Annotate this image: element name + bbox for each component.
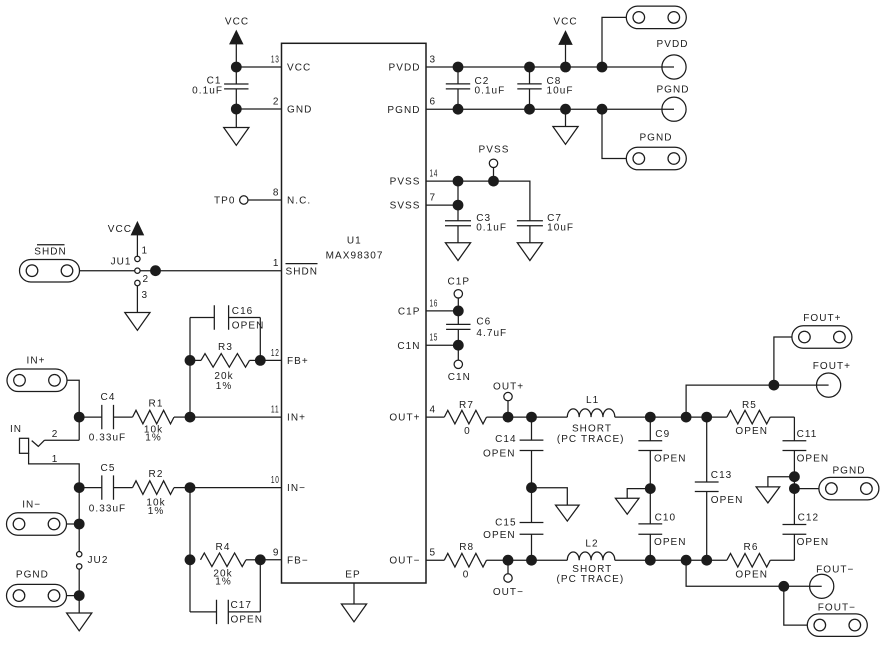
svg-text:4: 4 xyxy=(430,405,437,416)
svg-text:7: 7 xyxy=(430,193,437,204)
node C9 top xyxy=(645,412,656,423)
wire pin 2 GND xyxy=(236,108,281,110)
svg-text:OUT+: OUT+ xyxy=(389,413,420,424)
capacitor C17 OPEN xyxy=(190,600,263,626)
svg-text:C9: C9 xyxy=(655,429,670,440)
node C2 top xyxy=(453,62,464,73)
svg-text:GND: GND xyxy=(287,105,312,116)
svg-text:10uF: 10uF xyxy=(547,223,574,234)
capacitor C1 0.1uF xyxy=(192,67,248,109)
pad FOUT+ circle connector xyxy=(813,361,851,397)
svg-text:2: 2 xyxy=(52,429,59,440)
node OUT+ TP junction xyxy=(503,412,514,423)
svg-text:3: 3 xyxy=(430,55,437,66)
node C2 bottom xyxy=(453,104,464,115)
svg-text:C13: C13 xyxy=(711,470,733,481)
svg-text:(PC TRACE): (PC TRACE) xyxy=(557,574,625,585)
ground below C7 xyxy=(517,226,542,261)
wire pin 14 PVSS row xyxy=(426,181,530,221)
svg-text:5: 5 xyxy=(430,548,437,559)
pad PGND oval connector (right) xyxy=(819,466,879,500)
svg-text:C1P: C1P xyxy=(447,277,470,288)
svg-text:16: 16 xyxy=(430,298,439,309)
node ground right xyxy=(560,104,571,115)
svg-text:OPEN: OPEN xyxy=(483,530,516,541)
svg-text:MAX98307: MAX98307 xyxy=(326,250,384,261)
svg-text:FB+: FB+ xyxy=(287,356,309,367)
svg-text:VCC: VCC xyxy=(553,17,577,28)
node R4 left xyxy=(185,554,196,565)
capacitor C8 10uF xyxy=(517,67,573,109)
svg-text:N.C.: N.C. xyxy=(287,196,311,207)
node FOUT+ junction xyxy=(769,380,780,391)
svg-text:(PC TRACE): (PC TRACE) xyxy=(557,434,625,445)
node C13 top xyxy=(701,412,712,423)
wire R2 node down to R4/C17 xyxy=(189,488,191,612)
wire pin 15 C1N xyxy=(426,344,458,346)
node R3 left xyxy=(185,355,196,366)
resistor R4 20k 1% xyxy=(201,542,261,588)
svg-text:IN: IN xyxy=(10,424,22,435)
svg-text:SHDN: SHDN xyxy=(34,246,67,257)
svg-text:0.33uF: 0.33uF xyxy=(89,433,126,444)
ground below PGND row xyxy=(553,109,578,144)
svg-text:VCC: VCC xyxy=(287,63,311,74)
svg-text:C11: C11 xyxy=(797,429,818,440)
svg-text:1: 1 xyxy=(273,258,280,269)
capacitor C5 0.33uF xyxy=(79,463,132,515)
node FB+ junction xyxy=(255,355,266,366)
jumper JU1 xyxy=(111,246,150,302)
svg-text:C14: C14 xyxy=(495,434,517,445)
node IN+ pin 11 junction xyxy=(185,412,196,423)
svg-text:0.1uF: 0.1uF xyxy=(475,86,506,97)
wire FOUT- branch xyxy=(686,560,810,586)
wire PGND oval to PGND row xyxy=(602,109,626,158)
wire FOUT- oval branch xyxy=(784,586,808,625)
node C9/C10 ground junction xyxy=(645,483,656,494)
node C14/C15 ground junction xyxy=(526,482,537,493)
wire C16 right leg down to FB+ node xyxy=(259,318,261,361)
svg-text:PVDD: PVDD xyxy=(389,63,421,74)
svg-text:0.1uF: 0.1uF xyxy=(192,86,223,97)
svg-text:4.7uF: 4.7uF xyxy=(476,328,507,339)
wire pin 13 VCC xyxy=(236,66,281,68)
svg-text:R1: R1 xyxy=(149,399,164,410)
svg-text:1%: 1% xyxy=(145,433,162,444)
svg-text:OPEN: OPEN xyxy=(654,453,687,464)
wire FOUT+ oval branch xyxy=(774,337,792,385)
wire IN+ pad down to C4 node xyxy=(67,380,79,440)
pad PGND oval connector (right top) xyxy=(626,132,686,169)
pad SHDN oval connector xyxy=(20,245,80,282)
ground tap C14/C15 xyxy=(532,488,580,521)
wire PGND pad to ground xyxy=(67,595,80,597)
svg-text:FOUT+: FOUT+ xyxy=(813,361,851,372)
svg-text:C1N: C1N xyxy=(448,372,471,383)
capacitor C14 OPEN xyxy=(483,417,543,459)
node FOUT+ branch xyxy=(681,412,692,423)
wire C1P stem xyxy=(457,298,459,311)
ground below C1 xyxy=(224,109,249,145)
wire jack tip 2 to IN+ node xyxy=(45,439,80,441)
svg-text:1%: 1% xyxy=(148,506,165,517)
wire jack sleeve 1 to IN- node xyxy=(29,453,80,487)
svg-text:2: 2 xyxy=(273,97,280,108)
svg-text:1%: 1% xyxy=(215,576,232,587)
svg-text:R7: R7 xyxy=(459,400,474,411)
wire pin 6 PGND to PGND pad xyxy=(426,108,674,110)
svg-text:C1P: C1P xyxy=(398,307,421,318)
wire C11 to C12 xyxy=(793,451,795,525)
pad FOUT- oval connector xyxy=(807,602,867,636)
pad PVDD circle connector xyxy=(657,39,689,79)
wire FOUT+ branch xyxy=(686,385,816,417)
svg-text:C17: C17 xyxy=(231,600,253,611)
pad FOUT+ oval connector xyxy=(792,313,852,348)
wire L1 to C9/FOUT+ nodes xyxy=(615,416,707,418)
wire pin 12 FB+ xyxy=(260,359,281,361)
svg-text:C5: C5 xyxy=(101,463,116,474)
node SHDN junction xyxy=(150,265,161,276)
wire SHDN pad to JU1 pin 2 xyxy=(80,270,135,272)
svg-text:14: 14 xyxy=(430,169,439,180)
svg-text:R2: R2 xyxy=(149,469,164,480)
pad FOUT- circle connector xyxy=(810,565,855,599)
svg-text:1%: 1% xyxy=(216,381,233,392)
svg-text:OPEN: OPEN xyxy=(797,537,830,548)
wire C14 to C15 xyxy=(531,451,533,523)
audio jack IN xyxy=(10,424,58,465)
ground below C3 xyxy=(445,226,470,261)
capacitor C9 OPEN xyxy=(638,417,686,464)
node C1P junction xyxy=(453,306,464,317)
test point C1P xyxy=(447,277,470,298)
wire pin 9 FB- xyxy=(260,559,281,561)
node IN- pin 10 junction xyxy=(185,482,196,493)
wire L2 to C10/FOUT- nodes xyxy=(615,559,707,561)
svg-text:OPEN: OPEN xyxy=(735,426,768,437)
node FOUT- branch xyxy=(681,555,692,566)
wire pin 11 IN+ xyxy=(190,416,282,418)
svg-text:OPEN: OPEN xyxy=(735,569,768,580)
node PVSS junction xyxy=(488,176,499,187)
svg-text:12: 12 xyxy=(271,348,280,359)
capacitor C13 OPEN xyxy=(695,417,744,560)
capacitor C2 0.1uF xyxy=(446,67,506,109)
wire pin 10 IN- xyxy=(190,487,282,489)
node C11/C12 ground junction xyxy=(789,471,800,482)
wire OUT+ row to L1 xyxy=(508,416,567,418)
node VCC-pin13 junction xyxy=(231,62,242,73)
node C15 bottom xyxy=(526,555,537,566)
node C10 bottom xyxy=(645,555,656,566)
svg-text:PGND: PGND xyxy=(16,570,49,581)
inductor L2 SHORT (PC TRACE) xyxy=(557,538,625,585)
wire PGND oval right xyxy=(794,488,819,490)
svg-text:PGND: PGND xyxy=(656,85,689,96)
capacitor C7 10uF xyxy=(517,213,574,234)
svg-text:VCC: VCC xyxy=(108,224,132,235)
svg-text:SHDN: SHDN xyxy=(286,266,319,277)
svg-text:PVDD: PVDD xyxy=(657,39,689,50)
svg-text:R4: R4 xyxy=(216,542,231,553)
capacitor C10 OPEN xyxy=(638,512,686,560)
op-amp U1 MAX98307 IC body xyxy=(282,43,427,583)
svg-text:SHORT: SHORT xyxy=(572,424,612,435)
wire OUT+ TP stem xyxy=(507,401,509,417)
svg-text:C16: C16 xyxy=(232,306,254,317)
ground below PGND pad xyxy=(67,596,92,631)
svg-text:C1N: C1N xyxy=(397,341,420,352)
wire TP0 to pin 8 N.C. xyxy=(248,199,282,201)
wire VCC to JU1 pin 1 xyxy=(136,235,138,256)
node pin14-C3 xyxy=(453,176,464,187)
svg-text:PGND: PGND xyxy=(387,105,420,116)
power flag VCC (right) xyxy=(553,17,577,45)
svg-text:0.33uF: 0.33uF xyxy=(89,504,126,515)
svg-text:R3: R3 xyxy=(218,342,233,353)
resistor R7 0 xyxy=(426,400,508,437)
node OUT- TP junction xyxy=(503,555,514,566)
resistor R8 0 xyxy=(426,542,508,581)
svg-text:10: 10 xyxy=(271,475,280,486)
svg-text:C15: C15 xyxy=(495,518,517,529)
svg-text:IN−: IN− xyxy=(287,483,306,494)
svg-text:OPEN: OPEN xyxy=(654,537,687,548)
svg-text:OUT+: OUT+ xyxy=(493,382,524,393)
ground tap C9/C10 xyxy=(615,489,650,515)
svg-text:JU2: JU2 xyxy=(88,555,109,566)
svg-text:8: 8 xyxy=(273,188,280,199)
wire VCC right stem xyxy=(565,44,567,67)
node VCC arrow right xyxy=(560,62,571,73)
capacitor C15 OPEN xyxy=(483,518,543,561)
wire C9 to C10 xyxy=(649,451,651,524)
U1 pin numbers xyxy=(271,55,438,559)
svg-text:FB−: FB− xyxy=(287,555,309,566)
svg-text:1: 1 xyxy=(142,246,149,257)
svg-text:OPEN: OPEN xyxy=(231,614,264,625)
wire PVDD oval to PVDD row xyxy=(602,17,626,67)
test point OUT+ xyxy=(493,382,524,401)
svg-text:PGND: PGND xyxy=(832,466,865,477)
wire into FOUT- circle xyxy=(810,585,822,587)
node SVSS junction xyxy=(453,200,464,211)
capacitor C16 OPEN xyxy=(190,305,264,331)
node IN- pad junction xyxy=(74,519,85,530)
svg-text:U1: U1 xyxy=(347,236,362,247)
svg-text:OPEN: OPEN xyxy=(232,321,265,332)
inductor L1 SHORT (PC TRACE) xyxy=(557,395,625,445)
wire into FOUT+ circle xyxy=(817,384,829,386)
ground below JU1 pin 3 xyxy=(125,286,150,331)
pad IN- oval connector xyxy=(7,499,67,535)
node IN- / C5 junction xyxy=(74,482,85,493)
svg-text:R8: R8 xyxy=(459,542,474,553)
wire pin 3 PVDD to PVDD pad xyxy=(426,66,674,68)
svg-text:PGND: PGND xyxy=(639,132,672,143)
node PVDD branch xyxy=(597,62,608,73)
test point TP0 xyxy=(214,196,248,207)
svg-text:OUT−: OUT− xyxy=(389,556,420,567)
wire IN- pad to vertical bus xyxy=(67,523,80,525)
resistor R2 10k 1% xyxy=(133,469,191,517)
node IN+ / C4 junction xyxy=(74,412,85,423)
node C14 top xyxy=(526,412,537,423)
pad PVDD oval connector (top) xyxy=(626,6,686,29)
svg-text:PVSS: PVSS xyxy=(479,145,510,156)
resistor R5 OPEN xyxy=(707,400,795,437)
wire pin 16 C1P xyxy=(426,310,458,312)
test point PVSS xyxy=(479,145,510,168)
svg-text:0.1uF: 0.1uF xyxy=(476,223,507,234)
node C13 bottom xyxy=(701,555,712,566)
node PGND branch xyxy=(597,104,608,115)
svg-text:C4: C4 xyxy=(101,392,116,403)
svg-text:IN−: IN− xyxy=(22,499,41,510)
pad IN+ oval connector xyxy=(7,355,67,391)
wire SVSS column to C3 xyxy=(457,181,459,221)
svg-text:OPEN: OPEN xyxy=(797,453,830,464)
node C1N junction xyxy=(453,340,464,351)
resistor R3 20k 1% xyxy=(190,342,260,392)
wire pin 7 SVSS xyxy=(426,204,458,206)
svg-text:C10: C10 xyxy=(655,512,677,523)
resistor R6 OPEN xyxy=(707,542,795,580)
test point C1N xyxy=(448,345,471,383)
svg-text:9: 9 xyxy=(273,547,280,558)
svg-text:6: 6 xyxy=(430,97,437,108)
svg-text:11: 11 xyxy=(271,405,280,416)
capacitor C4 0.33uF xyxy=(79,392,132,444)
svg-text:3: 3 xyxy=(142,290,149,301)
jumper JU2 xyxy=(77,552,109,570)
svg-text:L2: L2 xyxy=(585,538,598,549)
svg-text:15: 15 xyxy=(430,333,439,344)
svg-text:0: 0 xyxy=(463,569,470,580)
svg-text:FOUT−: FOUT− xyxy=(818,602,856,613)
wire C16 left leg down to R3/IN+ node xyxy=(189,318,191,418)
svg-text:10uF: 10uF xyxy=(547,86,574,97)
node PGND branch right xyxy=(789,483,800,494)
wire vertical bus to JU2 xyxy=(78,488,80,552)
test point OUT- xyxy=(493,560,524,598)
node PGND junction xyxy=(74,590,85,601)
svg-text:JU1: JU1 xyxy=(111,257,132,268)
node C8 top xyxy=(524,62,535,73)
svg-text:R6: R6 xyxy=(744,542,759,553)
U1 left pin labels xyxy=(286,63,319,567)
svg-text:PVSS: PVSS xyxy=(390,177,421,188)
node FOUT- junction xyxy=(778,581,789,592)
svg-text:0: 0 xyxy=(464,426,471,437)
ground at EP pad xyxy=(341,583,366,622)
resistor R1 10k 1% xyxy=(133,399,191,444)
svg-text:L1: L1 xyxy=(586,395,599,406)
node FB- junction xyxy=(255,554,266,565)
power flag VCC (above JU1) xyxy=(108,222,144,235)
svg-text:OPEN: OPEN xyxy=(483,448,516,459)
svg-text:TP0: TP0 xyxy=(214,196,236,207)
svg-text:C12: C12 xyxy=(798,512,820,523)
pad PGND oval connector (left) xyxy=(7,570,67,607)
svg-text:C6: C6 xyxy=(476,317,491,328)
capacitor C3 0.1uF xyxy=(445,213,507,234)
wire JU1 pin 2 to pin 1 SHDN xyxy=(140,270,282,272)
svg-text:VCC: VCC xyxy=(225,17,249,28)
svg-text:2: 2 xyxy=(143,274,150,285)
wire JU2 to PGND node xyxy=(78,569,80,596)
capacitor C6 4.7uF xyxy=(446,311,507,345)
svg-text:R5: R5 xyxy=(742,400,757,411)
wire PVSS stem xyxy=(493,168,495,182)
svg-text:FOUT+: FOUT+ xyxy=(803,313,841,324)
power flag VCC (top, above C1) xyxy=(225,17,249,44)
svg-text:IN+: IN+ xyxy=(287,413,306,424)
pad PGND circle connector xyxy=(656,85,689,122)
wire C17 right leg up to FB- node xyxy=(259,560,261,612)
node C1-GND junction xyxy=(231,104,242,115)
ground tap C11/C12 xyxy=(756,477,794,503)
svg-text:SVSS: SVSS xyxy=(390,201,421,212)
node C8 bottom xyxy=(524,104,535,115)
svg-text:OUT−: OUT− xyxy=(493,587,524,598)
svg-text:OPEN: OPEN xyxy=(711,495,744,506)
svg-text:IN+: IN+ xyxy=(27,355,46,366)
svg-text:EP: EP xyxy=(345,570,360,581)
U1 right pin labels xyxy=(387,63,420,567)
capacitor C11 OPEN xyxy=(783,417,830,464)
wire VCC arrow stem to pin13 node xyxy=(235,44,237,68)
svg-text:13: 13 xyxy=(271,55,280,66)
capacitor C12 OPEN xyxy=(783,512,830,560)
wire OUT- row to L2 xyxy=(508,559,567,561)
